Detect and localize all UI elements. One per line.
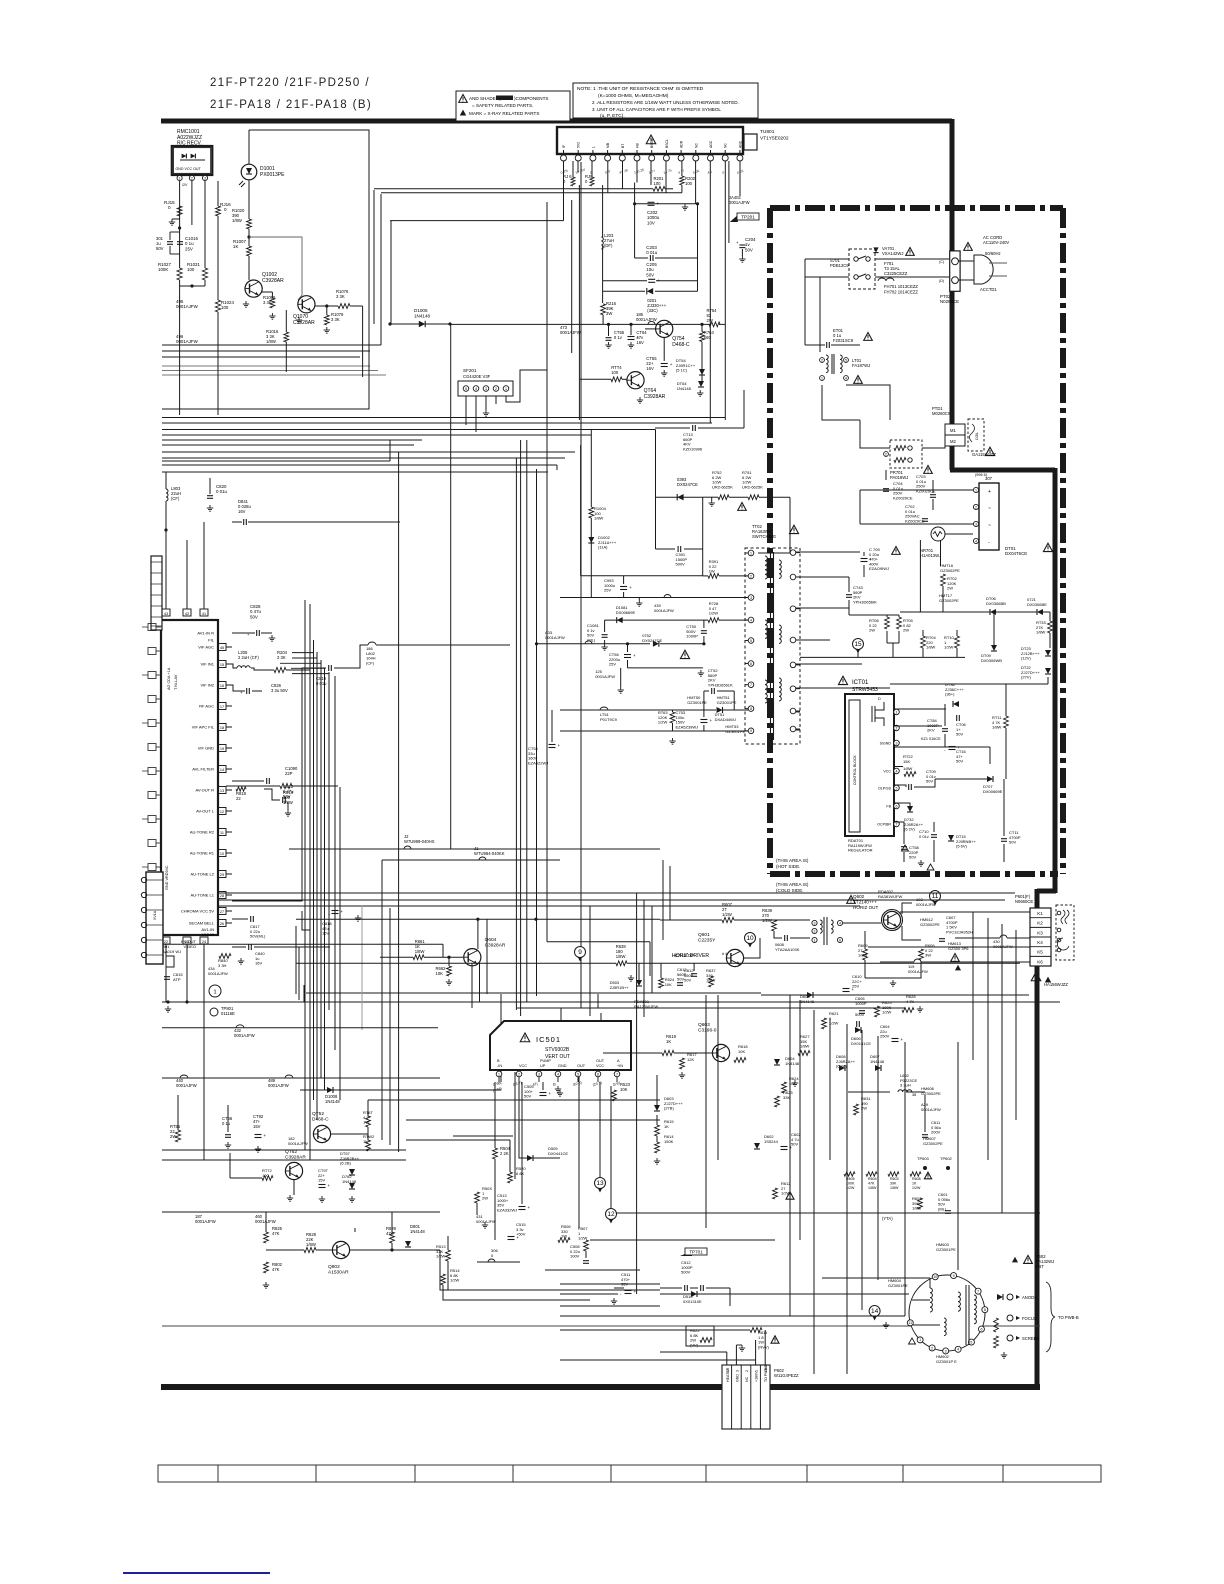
svg-text:0001AJFW: 0001AJFW — [195, 1219, 216, 1224]
main wire y324 — [450, 323, 710, 325]
svg-text:FOCUS: FOCUS — [1022, 1316, 1037, 1321]
svg-text:KZ1 016CE: KZ1 016CE — [921, 737, 941, 741]
svg-text:1/8W: 1/8W — [232, 218, 242, 223]
svg-text:1/2W: 1/2W — [829, 1021, 839, 1026]
svg-text:9: 9 — [578, 949, 582, 956]
svg-text:25V: 25V — [185, 246, 193, 251]
svg-text:0001AJFW: 0001AJFW — [288, 1141, 308, 1146]
svg-text:3: 3 — [945, 1349, 947, 1353]
svg-text:1/8W: 1/8W — [890, 1186, 899, 1190]
wire D1001 down — [248, 180, 250, 219]
svg-text:+: + — [790, 1145, 793, 1150]
flag 13 corrected — [595, 1178, 606, 1189]
svg-text:(5 1C): (5 1C) — [676, 368, 688, 373]
svg-text:15K: 15K — [903, 759, 910, 764]
wire y6438 A33 — [537, 643, 651, 645]
svg-text:100: 100 — [221, 305, 229, 310]
svg-text:)COMPONENTS: )COMPONENTS — [514, 96, 548, 101]
svg-text:P01T9C9: P01T9C9 — [600, 717, 618, 722]
svg-text:(u, P, ETC).: (u, P, ETC). — [600, 113, 625, 119]
svg-text:~: ~ — [988, 523, 991, 529]
svg-text:3: 3 — [735, 1370, 739, 1372]
svg-text:FH702 1014CEZZ: FH702 1014CEZZ — [884, 290, 918, 295]
svg-text:1: 1 — [505, 387, 507, 391]
separator line — [162, 1325, 1040, 1327]
wires q802 — [266, 1249, 304, 1251]
svg-text:+: + — [637, 335, 640, 340]
svg-text:GND: GND — [735, 1374, 739, 1382]
svg-text:SF201: SF201 — [463, 368, 477, 373]
svg-text:AC110V-240V: AC110V-240V — [983, 240, 1009, 245]
svg-text:PDB12C9: PDB12C9 — [830, 263, 849, 268]
gray vertical — [361, 905, 363, 1030]
DT09 — [991, 645, 997, 651]
hot side boundary dash-dot bottom — [770, 871, 1058, 877]
svg-text:4: 4 — [957, 1348, 959, 1352]
svg-text:R604: R604 — [868, 1177, 877, 1181]
degauss coil dashed box — [968, 419, 984, 451]
svg-text:10: 10 — [933, 1275, 937, 1279]
svg-text:0001AJFW: 0001AJFW — [268, 1083, 289, 1088]
svg-text:D1005: D1005 — [414, 308, 428, 313]
wires AC area — [875, 258, 949, 260]
svg-text:4: 4 — [845, 376, 847, 380]
svg-text:AU-TONE L1: AU-TONE L1 — [191, 893, 215, 898]
svg-text:GND VCC OUT: GND VCC OUT — [176, 167, 202, 171]
svg-text:1/8W: 1/8W — [992, 725, 1002, 730]
svg-text:10K: 10K — [620, 1087, 628, 1092]
svg-text:ANC: ANC — [738, 140, 742, 148]
svg-text:K4: K4 — [1037, 940, 1043, 945]
svg-text:0001AJFW: 0001AJFW — [545, 635, 565, 640]
svg-text:3W: 3W — [925, 953, 931, 958]
flag 15 — [853, 639, 864, 650]
svg-text:4: 4 — [975, 539, 977, 543]
svg-text:(996 6): (996 6) — [975, 473, 988, 477]
svg-text:22: 22 — [236, 796, 241, 801]
svg-text:CG4420E V3F: CG4420E V3F — [463, 374, 491, 379]
svg-text:1/8W: 1/8W — [903, 766, 913, 771]
svg-text:3: 3 — [204, 176, 206, 180]
svg-text:15V: 15V — [253, 1124, 261, 1129]
svg-text:3 3u 50V: 3 3u 50V — [271, 688, 288, 693]
svg-text:2W: 2W — [869, 628, 875, 633]
svg-text:DX0306BE: DX0306BE — [1027, 602, 1047, 607]
main wire y710 — [560, 709, 716, 711]
svg-text:1: 1 — [975, 488, 977, 492]
wires chroma — [232, 668, 326, 901]
svg-text:PUMP: PUMP — [540, 1059, 551, 1063]
wire y684 — [890, 683, 1048, 685]
wire y5975 — [560, 597, 748, 599]
svg-text:DX0441CE: DX0441CE — [548, 1151, 568, 1156]
wire corner A — [373, 190, 375, 324]
svg-text:47K: 47K — [272, 1231, 280, 1236]
P601 box — [1030, 908, 1051, 966]
svg-text:50/60Hz: 50/60Hz — [985, 251, 1001, 256]
svg-text:(CF): (CF) — [171, 496, 180, 501]
svg-text:FBT: FBT — [1036, 1264, 1044, 1269]
svg-text:1: 1 — [814, 938, 816, 942]
svg-text:2W: 2W — [482, 1196, 488, 1201]
QT64 — [627, 372, 644, 389]
svg-text:-IN: -IN — [497, 1064, 502, 1068]
D732 varactor — [907, 806, 913, 812]
NR701 posistor — [931, 527, 945, 541]
svg-text:29: 29 — [220, 873, 224, 877]
note box — [573, 83, 758, 118]
svg-text:50V: 50V — [646, 272, 654, 277]
svg-text:8: 8 — [984, 1308, 986, 1312]
tuner pin drops extra — [650, 161, 652, 185]
svg-text:12K: 12K — [687, 1057, 694, 1062]
svg-text:GZ3002PE: GZ3002PE — [923, 1141, 943, 1146]
PR701 dashed box — [890, 440, 922, 468]
R1004 — [589, 507, 594, 518]
svg-text:100V: 100V — [570, 1254, 580, 1259]
svg-text:150K: 150K — [664, 1139, 674, 1144]
wire branch to Q1070 base — [249, 237, 302, 300]
QT62 — [285, 1162, 302, 1179]
AV jack block left edge — [146, 872, 163, 964]
svg-text:DX0247CE: DX0247CE — [677, 482, 698, 487]
IF IC block — [161, 620, 218, 935]
svg-text:50V: 50V — [745, 247, 753, 252]
svg-text:STV9302B: STV9302B — [545, 1047, 570, 1053]
svg-text:+: + — [852, 987, 855, 992]
svg-text:SCREEN: SCREEN — [1022, 1336, 1039, 1341]
439 jumper — [664, 595, 671, 598]
warn mid — [680, 650, 689, 658]
svg-text:GND: GND — [558, 1064, 567, 1068]
svg-text:BT: BT — [621, 144, 625, 148]
svg-text:VXA142WJ: VXA142WJ — [882, 251, 903, 256]
svg-text:2: 2 — [191, 176, 193, 180]
Q1002 — [245, 280, 262, 297]
svg-text:K5: K5 — [1037, 950, 1043, 955]
svg-text:26: 26 — [220, 922, 224, 926]
wire pin2 stub — [191, 181, 193, 225]
bus y192 — [381, 192, 682, 194]
P601 warns — [1031, 972, 1041, 981]
svg-text:(11A): (11A) — [598, 545, 608, 550]
svg-text:3: 3 — [485, 387, 487, 391]
svg-text:UR2-6625K: UR2-6625K — [742, 484, 763, 489]
svg-text:(NVV): (NVV) — [758, 1344, 770, 1349]
svg-text:TP603: TP603 — [917, 1156, 930, 1161]
revision table — [158, 1465, 1101, 1482]
nested box lines extra — [162, 464, 557, 466]
svg-text:EZAO9IWJ: EZAO9IWJ — [869, 566, 889, 571]
svg-text:7: 7 — [616, 1072, 618, 1076]
svg-text:0 01u: 0 01u — [316, 681, 327, 686]
svg-text:D: D — [878, 697, 881, 701]
svg-text:+: + — [629, 585, 632, 590]
svg-text:(THIS AREA IS): (THIS AREA IS) — [776, 882, 809, 887]
wire y995 — [761, 994, 1029, 996]
svg-text:1: 1 — [821, 376, 823, 380]
svg-text:GZ3001PE: GZ3001PE — [888, 1283, 908, 1288]
RMC pin 3 — [202, 175, 207, 180]
ground — [172, 218, 180, 220]
svg-text:11: 11 — [220, 831, 224, 835]
svg-text:R603: R603 — [890, 1177, 899, 1181]
svg-text:2: 2 — [750, 574, 752, 578]
svg-text:GZ3002PE: GZ3002PE — [939, 598, 959, 603]
svg-text:5V2: 5V2 — [577, 142, 581, 148]
svg-text:(27B): (27B) — [664, 1106, 674, 1111]
svg-text:R605: R605 — [846, 1177, 855, 1181]
svg-text:1/2W: 1/2W — [709, 611, 719, 616]
IC701 pins — [894, 709, 900, 715]
svg-text:1K: 1K — [666, 1039, 671, 1044]
svg-text:100: 100 — [187, 267, 195, 272]
T603 pins — [812, 920, 817, 925]
Q754 — [656, 320, 673, 337]
C202 row — [634, 183, 636, 259]
svg-text:24: 24 — [202, 940, 206, 944]
svg-text:AU-TONE R1: AU-TONE R1 — [190, 851, 215, 856]
svg-text:(CF): (CF) — [366, 660, 375, 665]
svg-text:VIF AGC: VIF AGC — [198, 645, 214, 650]
main wire y612 — [900, 611, 990, 613]
svg-text:14: 14 — [220, 768, 224, 772]
svg-text:DX0306BB: DX0306BB — [986, 601, 1006, 606]
svg-text:1: 1 — [498, 1072, 500, 1076]
svg-text:8: 8 — [750, 707, 752, 711]
svg-text:C3225CEZZ: C3225CEZZ — [884, 271, 908, 276]
wires ptd1 — [860, 420, 890, 448]
svg-text:50V: 50V — [926, 779, 933, 784]
svg-text:39K: 39K — [890, 1181, 897, 1185]
svg-text:SWITCHING: SWITCHING — [752, 534, 776, 539]
svg-text:S/GND: S/GND — [880, 742, 892, 746]
T603 warn — [847, 896, 856, 904]
svg-text:DX04T6CE: DX04T6CE — [1005, 551, 1027, 556]
svg-text:17: 17 — [220, 705, 224, 709]
left edge stubs — [155, 559, 162, 561]
svg-text:3: 3 — [538, 1072, 540, 1076]
gnd flyback — [1003, 1352, 1005, 1355]
svg-text:R608: R608 — [912, 1177, 921, 1181]
svg-text:6 8K: 6 8K — [516, 1171, 525, 1176]
svg-text:/2V: /2V — [182, 183, 188, 187]
svg-text:1N4148: 1N4148 — [785, 1061, 800, 1066]
svg-text:0001AJFW: 0001AJFW — [208, 971, 228, 976]
svg-text:N0660CE: N0660CE — [1015, 899, 1033, 904]
svg-text:0: 0 — [224, 207, 227, 212]
svg-text:2: 2 — [518, 1072, 520, 1076]
svg-text:(27V): (27V) — [1021, 675, 1031, 680]
svg-text:GZ3001P E: GZ3001P E — [936, 1359, 957, 1364]
svg-text:(K=1000 OHMS, M=MEGAOHM): (K=1000 OHMS, M=MEGAOHM) — [598, 93, 669, 99]
svg-text:DX0131CE: DX0131CE — [851, 1041, 871, 1046]
svg-text:2W: 2W — [903, 628, 909, 633]
svg-text:+IN: +IN — [617, 1064, 623, 1068]
svg-text:1K: 1K — [912, 1181, 917, 1185]
TT02 right pins — [790, 550, 796, 556]
main wire y920 — [660, 919, 722, 921]
svg-text:IC501: IC501 — [536, 1035, 561, 1044]
flyback inner wires — [912, 1299, 930, 1301]
svg-text:1: 1 — [919, 1338, 921, 1342]
tuner small box — [744, 134, 757, 150]
wire hot top — [743, 390, 745, 428]
svg-text:5: 5 — [896, 786, 898, 790]
svg-text:FB: FB — [886, 805, 891, 809]
svg-text:MARK = X-RAY RELATED PARTS: MARK = X-RAY RELATED PARTS — [469, 111, 539, 116]
svg-text:1N4148: 1N4148 — [677, 386, 692, 391]
svg-text:4: 4 — [557, 1072, 559, 1076]
warn ptd1 — [985, 447, 994, 455]
svg-text:1/8W: 1/8W — [283, 800, 293, 805]
svg-text:DX00669E: DX00669E — [616, 610, 636, 615]
svg-text:10: 10 — [220, 852, 224, 856]
svg-text:BSCL: BSCL — [665, 139, 669, 148]
svg-text:23: 23 — [185, 940, 189, 944]
TT02 primary coil — [765, 556, 767, 579]
svg-text:W7U989-040HX: W7U989-040HX — [404, 839, 435, 844]
svg-text:OUT: OUT — [577, 1064, 586, 1068]
wire Q754 base — [645, 328, 656, 330]
svg-text:(DF): (DF) — [604, 243, 613, 248]
svg-text:5: 5 — [845, 358, 847, 362]
TT02 right wires — [796, 551, 800, 553]
svg-text:3: 3 — [814, 921, 816, 925]
svg-text:(HOT SIDE.: (HOT SIDE. — [776, 864, 800, 869]
anode focus screen pins — [1007, 1294, 1013, 1300]
svg-text:IF: IF — [562, 145, 566, 148]
svg-text:1/8W: 1/8W — [306, 1242, 316, 1247]
svg-text:28: 28 — [220, 894, 224, 898]
IC501 pins — [496, 1071, 502, 1077]
Q1070 — [298, 296, 315, 313]
svg-text:10K: 10K — [665, 982, 672, 987]
svg-text:HB: HB — [636, 143, 640, 148]
svg-text:YPH3D656IK: YPH3D656IK — [853, 599, 877, 604]
svg-text:2 2K: 2 2K — [500, 1151, 509, 1156]
svg-text:47K: 47K — [272, 1267, 280, 1272]
svg-text:0001AJFW: 0001AJFW — [636, 317, 657, 322]
left IC long verticals — [186, 540, 188, 598]
svg-text:(YTA): (YTA) — [882, 1216, 893, 1221]
svg-text:0001AJFW: 0001AJFW — [908, 969, 928, 974]
svg-text:+180V: +180V — [755, 1371, 759, 1382]
lower horizontals — [162, 1077, 440, 1079]
wires q603 vert — [924, 1130, 926, 1168]
svg-text:2: 2 — [495, 387, 497, 391]
svg-text:0001AJFW: 0001AJFW — [255, 1219, 276, 1224]
svg-text:14: 14 — [871, 1308, 879, 1315]
D393 box top wire — [656, 496, 703, 498]
degauss plug dashed — [1056, 905, 1074, 960]
svg-text:TP701: TP701 — [689, 1249, 703, 1254]
svg-text:50V: 50V — [524, 1094, 531, 1099]
CT43 — [800, 576, 849, 578]
svg-text:(5 6V): (5 6V) — [956, 844, 968, 849]
svg-text:45: 45 — [220, 646, 224, 650]
svg-text:M2: M2 — [950, 439, 956, 444]
svg-text:N0269CE: N0269CE — [940, 299, 959, 304]
svg-text:UP: UP — [540, 1064, 546, 1068]
wires ic501 — [494, 1082, 496, 1148]
svg-text:7: 7 — [977, 1290, 979, 1294]
svg-text:0001AJFW: 0001AJFW — [560, 330, 581, 335]
svg-text:K2: K2 — [1037, 921, 1043, 926]
svg-text:1W: 1W — [561, 1234, 567, 1239]
svg-text:250V: 250V — [880, 1034, 890, 1039]
svg-text:XV1A: XV1A — [153, 910, 157, 920]
svg-text:500V: 500V — [676, 562, 686, 567]
svg-text:TO PWB-B: TO PWB-B — [764, 1364, 768, 1382]
svg-text:Q604: Q604 — [485, 937, 497, 943]
svg-text:50V: 50V — [156, 246, 164, 251]
svg-text:DXAD44WJ: DXAD44WJ — [715, 717, 736, 722]
svg-text:0001AJFW: 0001AJFW — [916, 902, 936, 907]
svg-text:+: + — [558, 743, 561, 748]
svg-text:+: + — [328, 1183, 331, 1188]
svg-text:ICT01: ICT01 — [852, 680, 869, 686]
svg-text:VIF IN1: VIF IN1 — [200, 662, 214, 667]
svg-text:EZA332WJ: EZA332WJ — [497, 1207, 517, 1212]
wire pin1 down — [179, 181, 181, 268]
svg-text:PA016WJ: PA016WJ — [890, 475, 908, 480]
svg-text:33K: 33K — [783, 1095, 790, 1100]
RT06 RT05 loop — [849, 614, 899, 616]
svg-text:21F-PT220 /21F-PD250 /: 21F-PT220 /21F-PD250 / — [210, 77, 370, 89]
wire y731 — [560, 730, 748, 732]
svg-text:(12V): (12V) — [1021, 656, 1031, 661]
svg-text:+: + — [264, 1133, 267, 1138]
wires flyback — [822, 1277, 930, 1279]
svg-text:AV1-IN R: AV1-IN R — [197, 631, 214, 636]
blue footer line — [123, 1572, 270, 1574]
IC701 label — [838, 676, 847, 684]
svg-text:47K: 47K — [868, 1181, 875, 1185]
svg-text:OUT: OUT — [596, 1059, 605, 1063]
left edge connector stub upper — [151, 556, 162, 630]
bridge connector 307 box — [979, 483, 999, 550]
svg-text:13: 13 — [596, 1180, 604, 1187]
svg-text:NC: NC — [694, 143, 698, 148]
svg-text:0: 0 — [168, 205, 171, 210]
svg-text:A1530AR: A1530AR — [328, 1270, 349, 1276]
svg-text:COIL: COIL — [975, 432, 979, 440]
svg-text:(COLD SIDE.: (COLD SIDE. — [776, 888, 804, 893]
RMC1001 receiver box — [172, 146, 213, 175]
left edge cut wires — [142, 626, 148, 628]
C705 — [800, 551, 860, 553]
svg-text:+: + — [634, 1289, 637, 1294]
svg-text:16V: 16V — [322, 931, 329, 936]
svg-text:3: 3 — [750, 596, 752, 600]
svg-text:K3: K3 — [1037, 930, 1043, 935]
QT52 — [313, 1125, 330, 1142]
svg-text:AVL FILTER: AVL FILTER — [192, 767, 214, 772]
IC top pins — [162, 609, 170, 616]
verticals right-of-IC501 — [589, 906, 591, 1016]
Q601 — [726, 949, 743, 966]
wires rect307 — [860, 489, 973, 491]
svg-text:(C): (C) — [939, 260, 944, 264]
svg-text:+: + — [517, 1235, 520, 1240]
svg-text:4: 4 — [475, 387, 477, 391]
svg-text:C2235Y: C2235Y — [698, 938, 716, 944]
svg-text:CHROMA VCC 5V: CHROMA VCC 5V — [181, 909, 214, 914]
svg-text:1K: 1K — [233, 244, 238, 249]
upper-left gray bus — [162, 365, 370, 367]
vertical bundle left-of-IC501 — [389, 440, 391, 461]
